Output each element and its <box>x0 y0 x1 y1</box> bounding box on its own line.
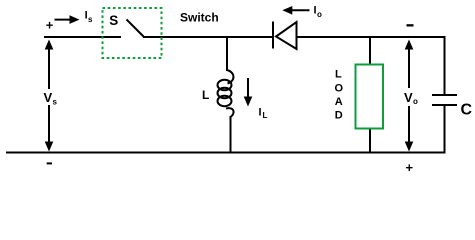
source minus terminal <box>47 162 52 164</box>
svg-text:I: I <box>259 107 262 119</box>
svg-text:O: O <box>335 82 344 94</box>
inductor L coil <box>218 70 234 117</box>
source Vs arrow up head <box>45 40 54 50</box>
wire load branch <box>369 36 371 153</box>
svg-text:A: A <box>335 96 343 108</box>
svg-text:L: L <box>202 88 209 102</box>
wire top rail diode to right corner <box>297 36 446 38</box>
switch S blade <box>127 20 145 38</box>
output Vo arrow up head <box>405 40 414 50</box>
svg-text:C: C <box>461 102 473 119</box>
current Is arrow <box>55 19 73 21</box>
svg-text:L: L <box>263 111 268 120</box>
output Vo arrow down head <box>405 142 414 152</box>
svg-text:S: S <box>109 13 118 28</box>
output Vo arrow shaft <box>408 44 410 88</box>
diode D cathode bar <box>272 22 274 49</box>
load resistor box <box>356 65 384 129</box>
svg-text:L: L <box>335 69 342 81</box>
current Io arrow <box>292 9 310 11</box>
wire top rail switch to diode <box>143 36 273 38</box>
wire right edge upper <box>444 36 446 95</box>
wire inductor branch upper stem <box>226 36 228 71</box>
current IL arrow <box>247 78 249 98</box>
diode D triangle <box>276 22 297 49</box>
capacitor C bottom plate <box>432 104 457 106</box>
switch dashed enclosure box <box>103 8 162 58</box>
capacitor C top plate <box>432 94 457 96</box>
svg-text:V: V <box>44 90 53 105</box>
svg-text:+: + <box>406 160 414 175</box>
svg-text:o: o <box>413 97 418 106</box>
wire right edge lower <box>444 105 446 153</box>
svg-text:s: s <box>88 15 93 24</box>
svg-text:V: V <box>404 90 413 105</box>
source Vs arrow shaft <box>48 44 50 89</box>
wire top rail left segment <box>44 36 121 38</box>
output minus terminal <box>407 24 414 26</box>
svg-text:o: o <box>317 10 322 19</box>
svg-text:D: D <box>335 110 343 122</box>
source Vs arrow down head <box>45 142 54 152</box>
wire inductor branch lower stem <box>230 116 232 153</box>
svg-text:Switch: Switch <box>180 11 219 25</box>
svg-text:+: + <box>46 17 54 32</box>
svg-text:s: s <box>53 98 58 107</box>
wire bottom rail <box>6 152 446 154</box>
